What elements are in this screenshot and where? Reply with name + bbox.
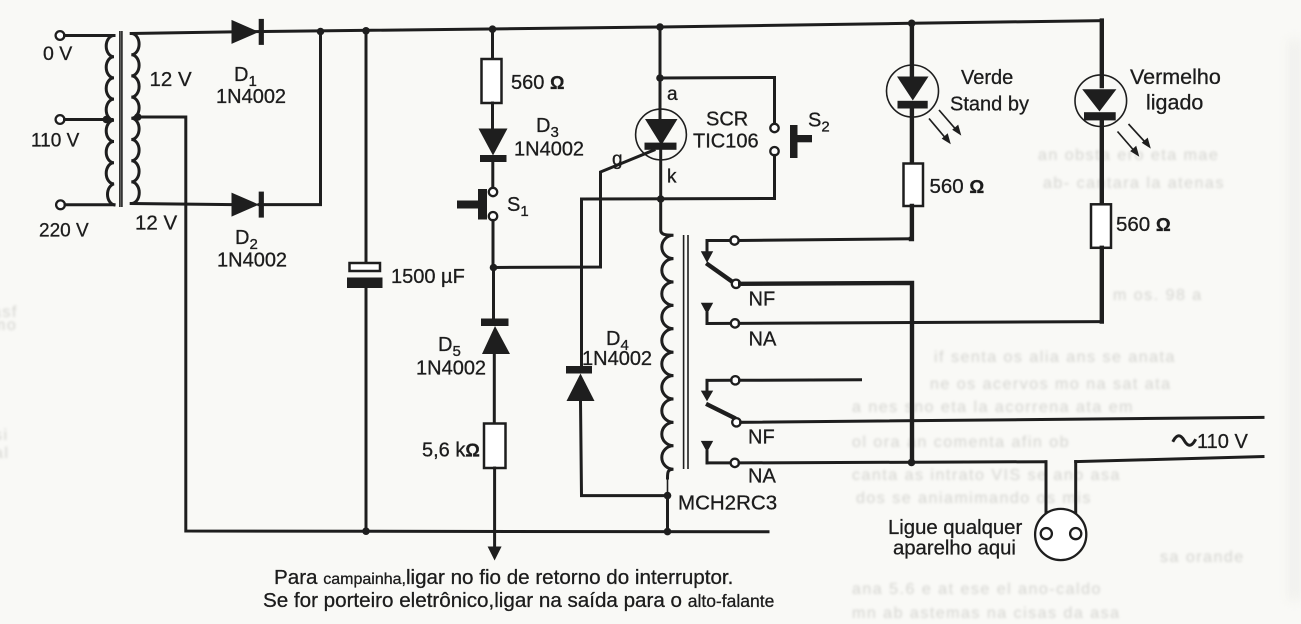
wire capacitor to bottom rail bbox=[365, 288, 368, 531]
node D2/top rail bbox=[317, 28, 325, 36]
svg-text:m os. 98 a: m os. 98 a bbox=[1113, 287, 1203, 304]
svg-text:sa orande: sa orande bbox=[1160, 549, 1245, 566]
resistor R2 5,6k bbox=[484, 424, 506, 469]
switch S2 contacts bbox=[770, 124, 778, 132]
svg-text:mn ab astemas na cisas da asa: mn ab astemas na cisas da asa bbox=[852, 605, 1121, 622]
diode D3 bbox=[479, 129, 508, 156]
node cathode junction bbox=[657, 195, 665, 203]
svg-text:NF: NF bbox=[749, 289, 776, 311]
relay contact NF1 bbox=[732, 280, 740, 288]
svg-text:Vermelho: Vermelho bbox=[1130, 65, 1221, 89]
relay contact NA2 bbox=[731, 459, 739, 467]
wire anode bbox=[659, 27, 662, 120]
svg-text:NA: NA bbox=[748, 466, 776, 488]
node anode/S2 tap bbox=[656, 74, 664, 82]
wire R3 to common1 bbox=[909, 206, 914, 239]
wire NA2 / lower 110V line left part bbox=[739, 462, 1046, 463]
transformer T1 primary winding bbox=[106, 36, 114, 205]
wire D3 to S1 bbox=[491, 162, 494, 188]
svg-text:12 V: 12 V bbox=[135, 212, 177, 235]
svg-text:ana 5.6 e at ese el ano-caldo: ana 5.6 e at ese el ano-caldo bbox=[852, 581, 1102, 598]
svg-text:an obsta ero eta mae: an obsta ero eta mae bbox=[1038, 147, 1219, 164]
wire coil bottom bbox=[667, 478, 669, 496]
plug pin left bbox=[1041, 528, 1052, 539]
wire top rail to R1 bbox=[491, 29, 494, 60]
node secondary center tap bbox=[134, 113, 142, 121]
wire cathode bbox=[659, 150, 662, 199]
svg-text:ol ora an comenta afin ob: ol ora an comenta afin ob bbox=[852, 434, 1070, 451]
diode D1 bbox=[232, 20, 260, 44]
wire 220V to primary bottom bbox=[65, 203, 114, 206]
wire S2 to cathode line bbox=[582, 155, 775, 199]
svg-text:si: si bbox=[0, 427, 9, 444]
wire common1 to green branch bbox=[739, 239, 912, 241]
wire S1 to gate node bbox=[492, 220, 495, 267]
wire red branch top bbox=[1100, 21, 1104, 86]
svg-text:1N4002: 1N4002 bbox=[217, 250, 287, 272]
svg-text:560 Ω: 560 Ω bbox=[1116, 213, 1171, 236]
svg-text:a nes sno eta la acorrena ata: a nes sno eta la acorrena ata em bbox=[852, 399, 1134, 416]
svg-text:Verde: Verde bbox=[961, 67, 1013, 89]
wire red LED to R4 bbox=[1100, 120, 1104, 205]
svg-text:ab- cantara la atenas: ab- cantara la atenas bbox=[1043, 175, 1225, 192]
wire anode to S2 bbox=[660, 78, 775, 124]
svg-text:0 V: 0 V bbox=[43, 43, 72, 65]
LED green body bbox=[887, 65, 939, 117]
diode D4 bbox=[566, 366, 592, 374]
svg-text:MCH2RC3: MCH2RC3 bbox=[678, 492, 777, 515]
transformer T1 secondary winding bbox=[131, 34, 139, 204]
wire top rail bbox=[131, 21, 1102, 34]
wire NF2 / upper 110V line bbox=[741, 417, 1263, 422]
svg-text:dos se aniamimando os mis: dos se aniamimando os mis bbox=[856, 490, 1092, 507]
plug stub right bbox=[1074, 462, 1077, 528]
arrow NA1 bbox=[701, 303, 713, 314]
wire D5 to R2 bbox=[493, 354, 496, 424]
diode D4 branch bbox=[580, 199, 583, 367]
arrow NA2 bbox=[701, 441, 713, 452]
svg-text:ne os acervos mo na sat ata: ne os acervos mo na sat ata bbox=[930, 376, 1172, 393]
node primary center tap bbox=[103, 116, 111, 124]
capacitor C1 bottom plate bbox=[347, 278, 383, 289]
switch S2 plunger bbox=[790, 125, 798, 158]
wire 0V to primary top bbox=[65, 34, 115, 37]
SCR U1 body bbox=[636, 109, 687, 160]
node green branch / top rail bbox=[908, 20, 916, 28]
transformer core bbox=[119, 31, 121, 207]
relay blade 2 bbox=[708, 405, 734, 418]
terminal 110V bbox=[56, 115, 65, 124]
plug pin right bbox=[1070, 528, 1081, 539]
svg-text:aparelho aqui: aparelho aqui bbox=[893, 538, 1016, 560]
svg-text:if senta os alia ans se anata: if senta os alia ans se anata bbox=[934, 349, 1176, 366]
diode D2 bbox=[232, 193, 260, 217]
wire secondary bottom to D2 bbox=[131, 204, 231, 205]
wire R1 to D3 bbox=[491, 103, 494, 129]
terminal 0V bbox=[56, 31, 65, 40]
node coil/bottom rail bbox=[664, 528, 672, 536]
svg-text:110 V: 110 V bbox=[31, 131, 80, 152]
switch S1 contacts bbox=[489, 188, 497, 196]
svg-text:5,6 kΩ: 5,6 kΩ bbox=[422, 440, 480, 462]
resistor R3 560 green bbox=[904, 164, 924, 207]
wire R2 through rail to arrow bbox=[493, 468, 496, 547]
svg-text:canta as intrato VIS se ano as: canta as intrato VIS se ano asa bbox=[852, 467, 1121, 484]
svg-text:1N4002: 1N4002 bbox=[216, 86, 286, 108]
capacitor C1 1500uF top plate bbox=[350, 263, 381, 271]
svg-text:al: al bbox=[0, 445, 9, 462]
svg-text:SCR: SCR bbox=[706, 109, 748, 131]
arrow output campainha bbox=[488, 547, 502, 561]
sine symbol 110V bbox=[1174, 436, 1196, 446]
relay contact set 2 common bbox=[731, 376, 739, 384]
plug stub left bbox=[1045, 462, 1048, 529]
wire capacitor branch top bbox=[365, 31, 368, 263]
node capacitor branch bbox=[362, 27, 370, 35]
svg-text:TIC106: TIC106 bbox=[693, 131, 759, 153]
terminal 220V bbox=[56, 200, 65, 209]
node SCR anode / top rail bbox=[656, 23, 664, 31]
svg-text:1N4002: 1N4002 bbox=[582, 348, 652, 370]
svg-text:Ligue qualquer: Ligue qualquer bbox=[888, 517, 1022, 539]
wire NA1 to red branch bbox=[739, 322, 1102, 324]
svg-text:560 Ω: 560 Ω bbox=[511, 72, 564, 94]
node S1/gate junction bbox=[490, 264, 498, 272]
svg-text:g: g bbox=[612, 149, 623, 170]
relay contact NA1 bbox=[731, 319, 739, 327]
resistor R1 560 ohm bbox=[482, 59, 502, 103]
svg-text:110 V: 110 V bbox=[1197, 431, 1248, 453]
wire 110V to primary tap bbox=[65, 118, 113, 121]
wire D2 up to top rail bbox=[259, 32, 321, 205]
diode D5 bbox=[481, 319, 509, 327]
svg-text:k: k bbox=[667, 167, 677, 188]
wire NF1 down to lower line bbox=[740, 283, 912, 462]
svg-text:1500 µF: 1500 µF bbox=[391, 266, 465, 288]
wire coil node to bottom rail bbox=[666, 496, 669, 532]
svg-text:1N4002: 1N4002 bbox=[514, 139, 584, 161]
svg-text:560 Ω: 560 Ω bbox=[930, 175, 985, 198]
wire green LED anode bbox=[910, 23, 914, 77]
relay contact set 1 common bbox=[730, 236, 738, 244]
svg-text:NA: NA bbox=[749, 329, 777, 351]
node capacitor/bottom rail bbox=[362, 527, 370, 535]
switch S1 plunger bbox=[478, 189, 487, 220]
wire center tap to bottom rail bbox=[138, 117, 768, 532]
wire R4 to NA1 line bbox=[1100, 248, 1104, 322]
svg-text:12 V: 12 V bbox=[150, 68, 192, 91]
LED green arrows bbox=[929, 110, 961, 144]
wire lower 110V line right part bbox=[1076, 457, 1263, 462]
svg-text:Se for porteiro eletrônico,lig: Se for porteiro eletrônico,ligar na saíd… bbox=[263, 589, 774, 612]
svg-text:a: a bbox=[667, 84, 678, 105]
wire gate tap bbox=[494, 150, 655, 268]
node 560 branch top bbox=[489, 25, 497, 33]
svg-text:220 V: 220 V bbox=[39, 221, 89, 242]
relay core bbox=[683, 235, 685, 469]
resistor R4 560 red bbox=[1091, 204, 1111, 248]
plug body bbox=[1035, 509, 1086, 560]
svg-text:NF: NF bbox=[748, 427, 775, 449]
LED red body bbox=[1075, 75, 1127, 127]
wire gate node to D5 bbox=[492, 268, 495, 320]
wire D4 to coil bottom bbox=[581, 401, 668, 496]
relay coil MCH2RC3 bbox=[661, 199, 674, 478]
LED red arrows bbox=[1118, 124, 1151, 157]
svg-text:1N4002: 1N4002 bbox=[416, 358, 486, 380]
svg-text:mo: mo bbox=[0, 317, 17, 334]
node coil bottom bbox=[664, 492, 672, 500]
svg-text:ligado: ligado bbox=[1146, 91, 1203, 115]
svg-text:Stand by: Stand by bbox=[950, 94, 1029, 116]
relay contact NF2 bbox=[732, 418, 740, 426]
relay blade 1 bbox=[708, 265, 733, 283]
node lower line / NF1 connector bbox=[908, 459, 916, 467]
wire green LED to R3 bbox=[910, 109, 914, 165]
